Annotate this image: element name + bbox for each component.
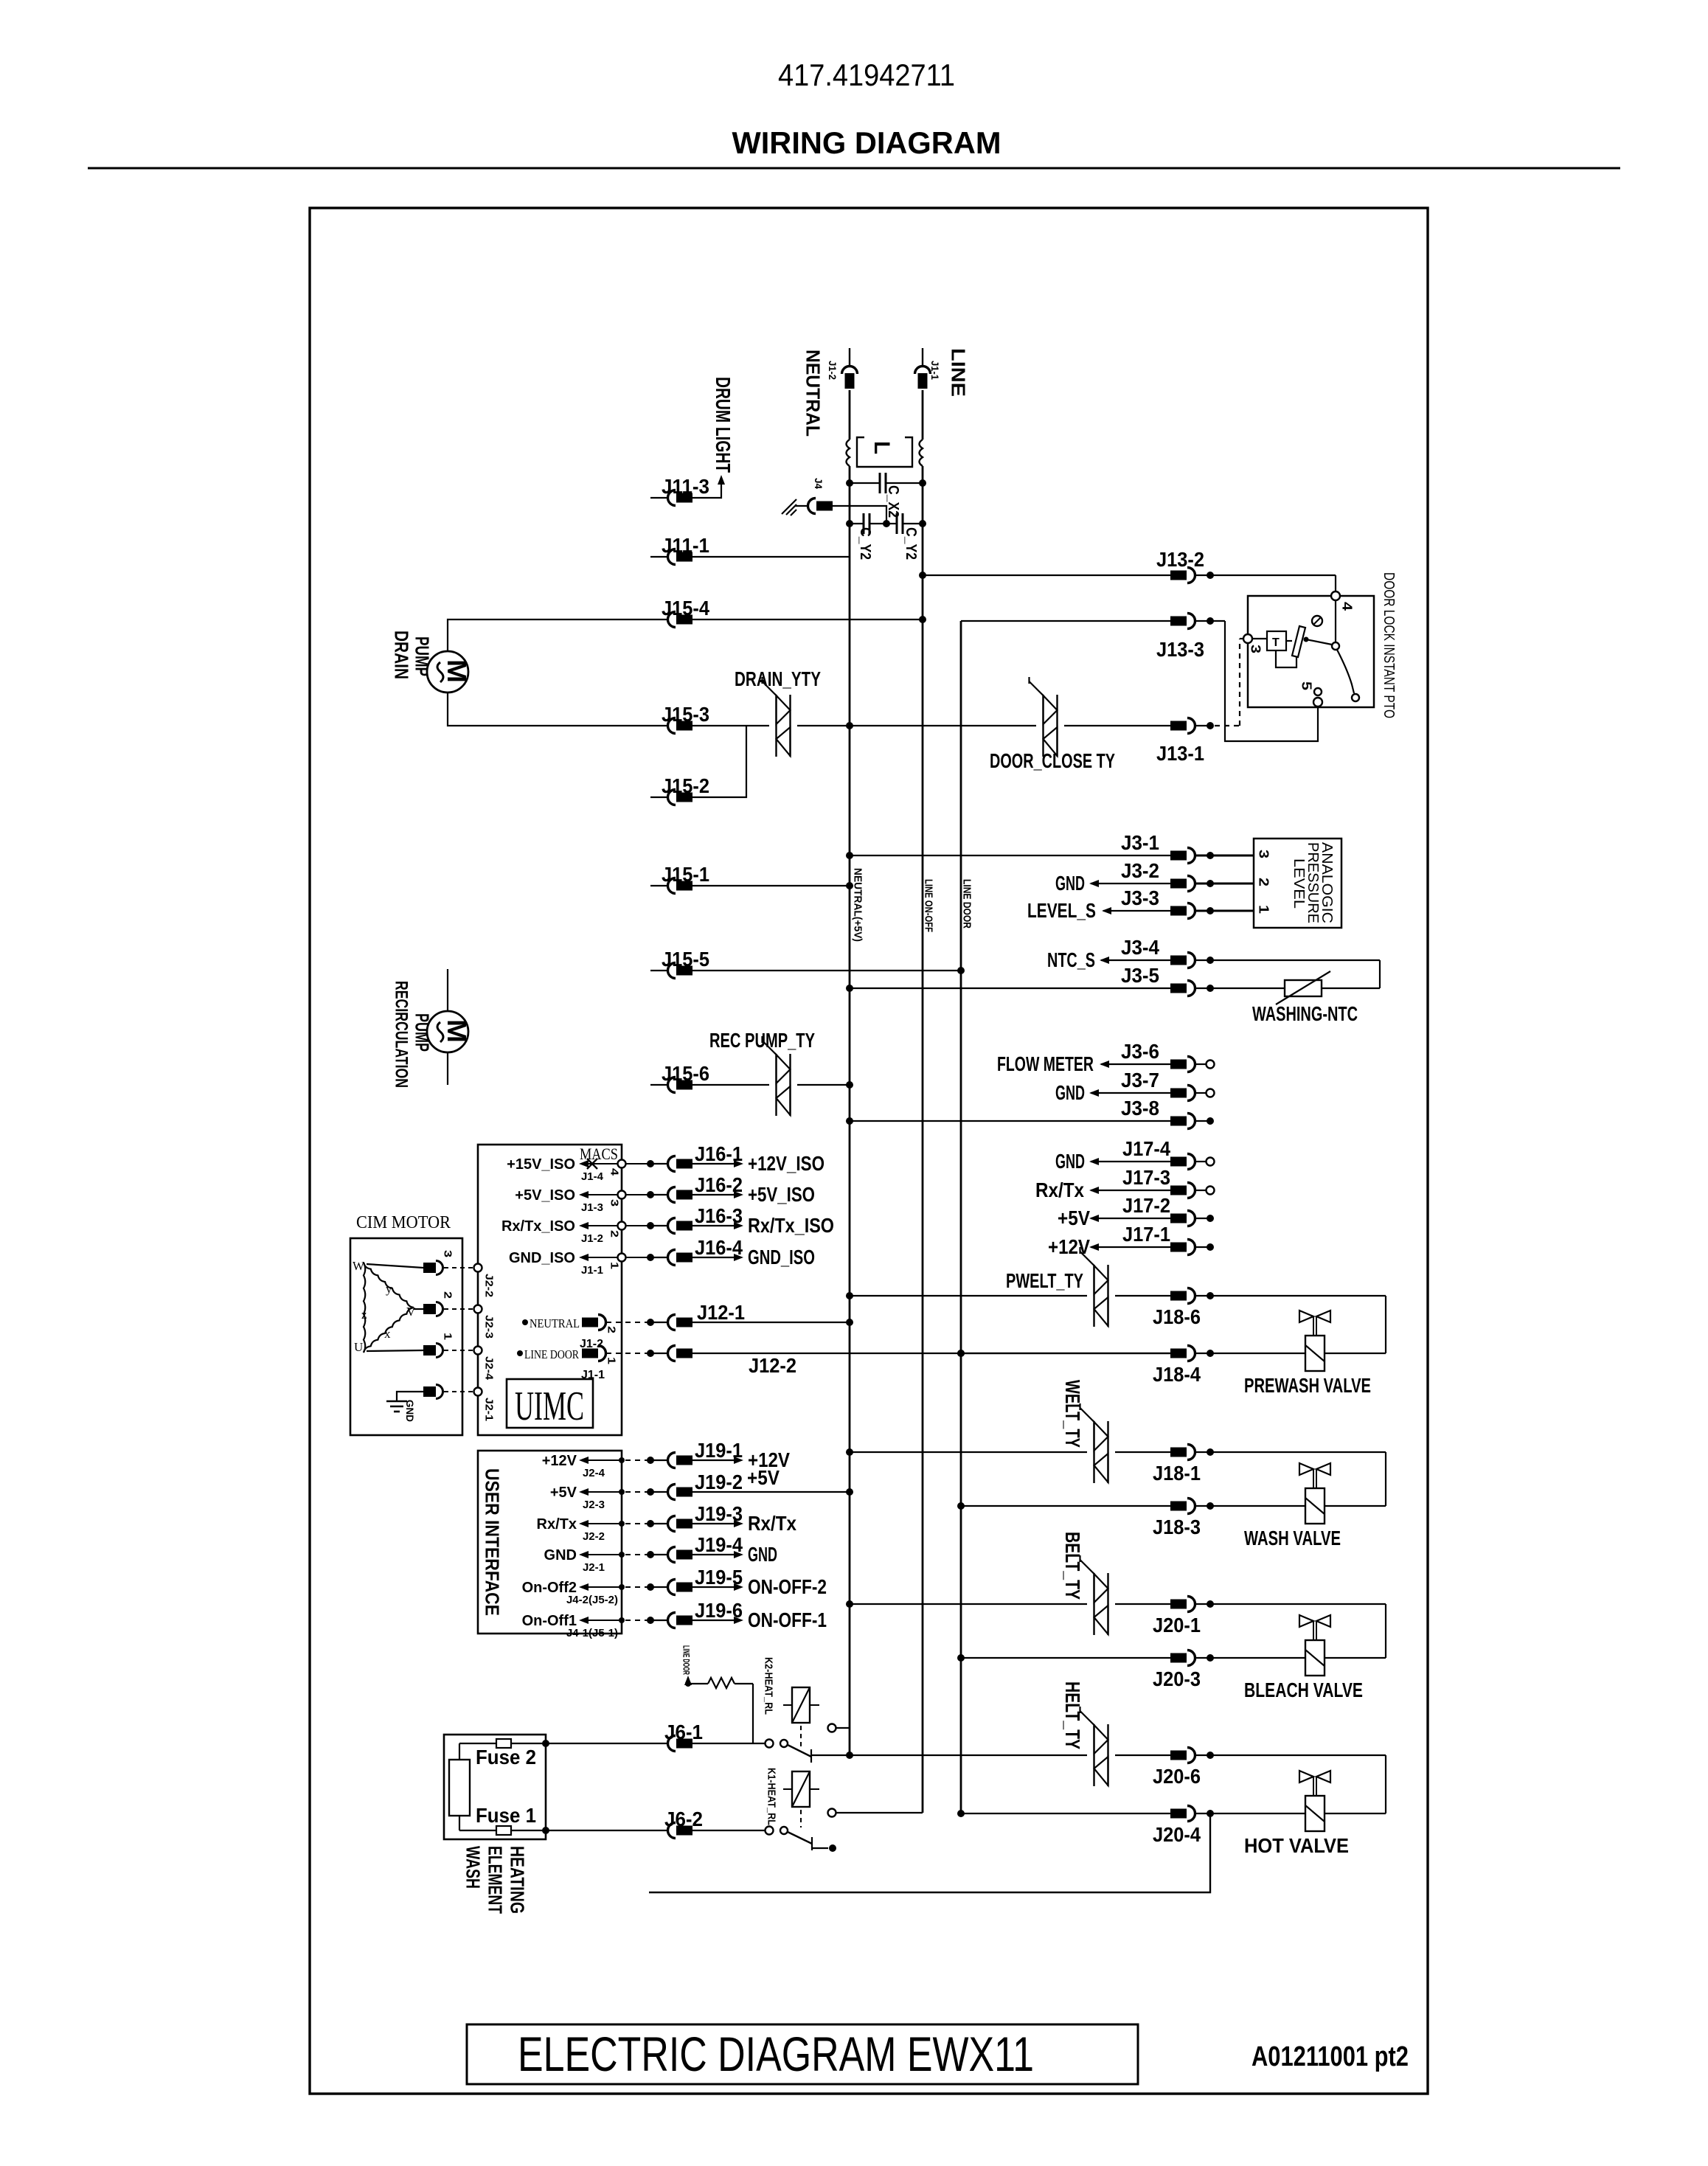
wire J20-3 row xyxy=(957,1654,1171,1662)
svg-text:3: 3 xyxy=(1257,850,1271,858)
wire J20-1 loop top xyxy=(1195,1600,1386,1658)
svg-text:J20-1: J20-1 xyxy=(1153,1614,1201,1636)
svg-text:2: 2 xyxy=(605,1326,618,1333)
svg-text:C_X2: C_X2 xyxy=(885,485,901,518)
svg-text:3: 3 xyxy=(608,1199,621,1207)
connector J19-3 xyxy=(668,1502,743,1532)
wire FLOW METER to J3-6 xyxy=(1101,1063,1171,1065)
dashed wire MACS to J12-2 xyxy=(606,1350,668,1357)
triac REC PUMP_TY xyxy=(775,1054,777,1116)
svg-text:J20-3: J20-3 xyxy=(1153,1667,1201,1690)
svg-text:3: 3 xyxy=(1249,645,1263,653)
fuse box junction J6-2 xyxy=(542,1827,549,1834)
svg-text:DRAIN: DRAIN xyxy=(391,631,413,679)
svg-text:J1-2: J1-2 xyxy=(580,1338,603,1350)
svg-text:ELECTRIC DIAGRAM EWX11: ELECTRIC DIAGRAM EWX11 xyxy=(518,2027,1034,2081)
valve HOT VALVE xyxy=(1244,1771,1349,1857)
connector J19-5 xyxy=(668,1566,743,1595)
analogic pressure level sensor box xyxy=(1254,839,1341,928)
label +5V J17-2 xyxy=(1058,1207,1099,1229)
signal arrow Rx/Tx_ISO xyxy=(692,1214,834,1237)
wire UI to J19-5 xyxy=(625,1583,668,1591)
svg-text:2: 2 xyxy=(1257,878,1271,886)
svg-text:C_Y2: C_Y2 xyxy=(857,527,873,560)
diagram border frame xyxy=(310,208,1428,2094)
CIM ground pin to MACS J2-1 xyxy=(397,1385,496,1422)
ground symbol CIM xyxy=(386,1400,416,1422)
svg-text:Rx/Tx_ISO: Rx/Tx_ISO xyxy=(501,1218,575,1235)
svg-text:J1-1: J1-1 xyxy=(581,1264,603,1277)
connector J19-4 xyxy=(668,1533,743,1563)
CIM pin 1 to MACS J2-4 xyxy=(367,1333,496,1381)
svg-text:J3-6: J3-6 xyxy=(1121,1040,1159,1063)
connector J20-6 xyxy=(1153,1748,1201,1788)
connector J3-1 xyxy=(1121,831,1195,864)
svg-text:J3-3: J3-3 xyxy=(1121,886,1159,909)
connector J16-4 xyxy=(668,1236,743,1266)
svg-text:WASHING-NTC: WASHING-NTC xyxy=(1252,1002,1358,1025)
wire drain pump to J15-4 xyxy=(448,619,668,652)
CIM pin 3 to MACS J2-2 xyxy=(367,1250,496,1297)
svg-text:LINE: LINE xyxy=(948,348,970,397)
svg-text:DOOR LOCK INSTANT PTO: DOOR LOCK INSTANT PTO xyxy=(1381,572,1397,718)
terminal J17-3 xyxy=(1195,1187,1215,1195)
svg-text:J1-2: J1-2 xyxy=(581,1232,603,1245)
connector J3-2 xyxy=(1121,859,1195,892)
svg-text:+12V: +12V xyxy=(542,1453,577,1469)
signal arrow +12V xyxy=(692,1448,790,1471)
wire K2 common to J20-6 row xyxy=(811,1754,850,1756)
label Rx/Tx J17-3 xyxy=(1035,1179,1099,1201)
svg-text:LEVEL_S: LEVEL_S xyxy=(1027,899,1096,922)
triac BELT_TY xyxy=(1093,1573,1094,1635)
connector J17-2 xyxy=(1122,1194,1195,1226)
svg-text:J2-4: J2-4 xyxy=(583,1467,605,1479)
svg-text:J18-1: J18-1 xyxy=(1153,1462,1201,1485)
svg-text:RECIRCULATION: RECIRCULATION xyxy=(391,981,411,1088)
svg-text:HEATING: HEATING xyxy=(507,1846,529,1914)
wire J15-1 to neutral bus xyxy=(692,882,853,889)
dashed wire MACS to J12-1 xyxy=(606,1319,668,1326)
connector J20-4 xyxy=(1153,1806,1201,1847)
heating element fuse box xyxy=(444,1735,546,1839)
connector J19-1 xyxy=(668,1439,743,1468)
svg-text:J20-4: J20-4 xyxy=(1153,1823,1201,1846)
svg-text:DRAIN_YTY: DRAIN_YTY xyxy=(735,667,821,690)
connector J4 xyxy=(795,499,833,514)
svg-text:J18-6: J18-6 xyxy=(1153,1305,1201,1328)
svg-text:Rx/Tx: Rx/Tx xyxy=(537,1516,577,1532)
connector J13-3 xyxy=(1156,614,1204,662)
connector J19-6 xyxy=(668,1599,743,1628)
label GND J3-7 xyxy=(1055,1081,1099,1104)
wire UI to J19-1 xyxy=(625,1457,668,1464)
svg-text:J2-2: J2-2 xyxy=(583,1530,605,1543)
label +12V J17-1 xyxy=(1048,1235,1099,1258)
svg-text:J17-3: J17-3 xyxy=(1122,1166,1170,1189)
triac PWELT_TY xyxy=(1093,1265,1094,1327)
module USER INTERFACE box xyxy=(478,1451,622,1634)
svg-text:J13-2: J13-2 xyxy=(1156,548,1204,571)
wire J13-3 to door lock pin 5 xyxy=(1195,617,1318,741)
signal arrow LINE DOOR with resistor xyxy=(681,1645,753,1743)
svg-text:J1-1: J1-1 xyxy=(929,361,941,380)
svg-text:NEUTRAL: NEUTRAL xyxy=(530,1316,580,1330)
wire J15-6 to triac xyxy=(692,1084,769,1086)
svg-text:C_Y2: C_Y2 xyxy=(903,527,919,560)
wire J11-1 to neutral bus xyxy=(692,556,850,558)
connector J15-6 xyxy=(650,1062,709,1093)
svg-text:Fuse 1: Fuse 1 xyxy=(476,1804,536,1827)
svg-text:M: M xyxy=(442,1019,472,1043)
wire drain pump to J15-3 xyxy=(448,692,668,726)
terminal J3-8 xyxy=(1195,1117,1214,1125)
svg-text:J19-2: J19-2 xyxy=(695,1471,743,1493)
connector J3-8 xyxy=(1121,1097,1195,1129)
terminal J17-4 xyxy=(1195,1158,1215,1166)
svg-text:J2-1: J2-1 xyxy=(483,1398,496,1421)
connector J18-3 xyxy=(1153,1499,1201,1539)
svg-text:PWELT_TY: PWELT_TY xyxy=(1006,1269,1083,1292)
MACS pin J1-4 +15V_ISO xyxy=(507,1156,625,1183)
svg-text:Fuse 2: Fuse 2 xyxy=(476,1746,536,1768)
triac WELT_TY xyxy=(1093,1421,1094,1483)
svg-text:HOT VALVE: HOT VALVE xyxy=(1244,1834,1349,1857)
connector J20-1 xyxy=(1153,1597,1201,1637)
svg-text:y: y xyxy=(386,1282,392,1296)
junction dot drain row neutral bus xyxy=(846,722,853,729)
svg-text:A01211001 pt2: A01211001 pt2 xyxy=(1252,2041,1409,2072)
wire J3-5 row from neutral bus xyxy=(850,987,1171,989)
wire MACS to J16-3 xyxy=(625,1222,668,1229)
connector J11-1 xyxy=(650,534,709,565)
svg-text:2: 2 xyxy=(442,1291,454,1299)
label ANALOGIC PRESSURE LEVEL xyxy=(1291,842,1335,923)
svg-text:J4-1(J5-1): J4-1(J5-1) xyxy=(566,1627,618,1639)
door lock box xyxy=(1248,596,1374,707)
label HEATING ELEMENT WASH xyxy=(462,1846,529,1914)
svg-text:1: 1 xyxy=(1257,905,1271,914)
svg-text:J18-4: J18-4 xyxy=(1153,1363,1201,1386)
svg-text:ELEMENT: ELEMENT xyxy=(485,1846,507,1914)
wire heater return bottom xyxy=(649,1816,1210,1892)
svg-text:J4-2(J5-2): J4-2(J5-2) xyxy=(566,1594,618,1606)
connector J11-3 xyxy=(650,475,709,506)
svg-text:ANALOGIC: ANALOGIC xyxy=(1319,842,1335,923)
svg-text:PRESSURE: PRESSURE xyxy=(1305,842,1321,923)
svg-text:J18-3: J18-3 xyxy=(1153,1516,1201,1538)
capacitor C_Y2 right xyxy=(886,513,923,560)
connector J1-2 NEUTRAL xyxy=(842,348,858,389)
wire J20-3 loop bottom xyxy=(1195,1654,1386,1662)
label RECIRCULATION PUMP xyxy=(391,981,433,1088)
wire J18-1 loop top xyxy=(1195,1448,1386,1506)
MACS internal connector J1-2 NEUTRAL xyxy=(522,1315,618,1351)
signal arrow Rx/Tx xyxy=(692,1512,796,1535)
svg-text:Rx/Tx: Rx/Tx xyxy=(748,1512,796,1535)
svg-text:J3-5: J3-5 xyxy=(1121,964,1159,987)
svg-text:NEUTRAL: NEUTRAL xyxy=(802,350,825,437)
connector J13-2 xyxy=(1156,548,1204,583)
door lock switch xyxy=(1304,600,1360,701)
signal arrow +12V_ISO xyxy=(692,1152,825,1175)
wire triac to J18-1 xyxy=(1115,1451,1171,1453)
wire MACS to J16-1 xyxy=(625,1160,668,1167)
wire LINE DOOR bus main xyxy=(960,621,962,1813)
wire J12-1 to neutral bus xyxy=(692,1319,853,1326)
svg-text:1: 1 xyxy=(608,1262,621,1269)
connector J15-5 xyxy=(650,948,709,979)
svg-text:Rx/Tx: Rx/Tx xyxy=(1035,1179,1084,1201)
svg-text:GND: GND xyxy=(748,1543,777,1566)
module CIM MOTOR box xyxy=(350,1238,462,1435)
wire J20-6 row xyxy=(846,1752,1087,1759)
svg-text:M: M xyxy=(442,659,472,683)
motor RECIRCULATION PUMP xyxy=(427,969,472,1085)
wire MACS to J16-4 xyxy=(625,1254,668,1261)
svg-text:J2-2: J2-2 xyxy=(483,1274,496,1297)
wire J20-1 row xyxy=(846,1600,1087,1608)
svg-text:LINE DOOR: LINE DOOR xyxy=(961,879,973,928)
svg-text:WASH: WASH xyxy=(462,1846,485,1889)
ground symbol at J4 xyxy=(782,499,796,516)
wire LEVEL_S to J3-3 xyxy=(1103,910,1171,912)
svg-text:K2-HEAT_RL: K2-HEAT_RL xyxy=(763,1657,775,1715)
USER INTERFACE pin J2-1 GND xyxy=(544,1547,625,1574)
svg-text:UIMC: UIMC xyxy=(515,1384,584,1429)
junction dot J13-2 line bus xyxy=(919,572,926,579)
motor winding delta xyxy=(353,1259,416,1354)
USER INTERFACE pin J2-3 +5V xyxy=(550,1485,625,1511)
connector J15-3 xyxy=(662,703,709,734)
svg-text:PREWASH VALVE: PREWASH VALVE xyxy=(1244,1374,1371,1397)
connector J16-2 xyxy=(668,1173,743,1203)
wire fuse to J6-2 xyxy=(546,1830,668,1831)
svg-text:J17-4: J17-4 xyxy=(1122,1137,1170,1160)
wire J18-4 loop bottom xyxy=(1195,1350,1386,1357)
wire J19-2 +5V to neutral bus xyxy=(692,1466,853,1496)
contact K2 upper xyxy=(828,1724,850,1732)
wire J13-2 to door lock pin 4 xyxy=(1195,572,1336,591)
MACS pin J1-2 Rx/Tx_ISO xyxy=(501,1218,626,1245)
svg-text:4: 4 xyxy=(608,1168,621,1176)
svg-text:W: W xyxy=(353,1259,365,1273)
connector J17-1 xyxy=(1122,1223,1195,1255)
svg-text:BLEACH VALVE: BLEACH VALVE xyxy=(1244,1679,1363,1701)
svg-text:+5V: +5V xyxy=(1058,1207,1090,1229)
USER INTERFACE pin J4-1(J5-1) On-Off1 xyxy=(522,1613,625,1639)
svg-text:ON-OFF-1: ON-OFF-1 xyxy=(748,1608,827,1631)
svg-text:J2-4: J2-4 xyxy=(483,1356,496,1381)
svg-text:J1-2: J1-2 xyxy=(827,361,839,380)
svg-text:WASH VALVE: WASH VALVE xyxy=(1244,1527,1341,1549)
relay coil K1-HEAT_RL xyxy=(766,1768,819,1827)
wire LINE bus upper xyxy=(922,390,924,440)
svg-text:4: 4 xyxy=(1340,602,1355,611)
wire triac to J13-1 xyxy=(1064,725,1171,726)
wire J11-3 drum light arrow xyxy=(692,475,725,498)
wire J4 to C_Y2 midpoint xyxy=(832,506,886,524)
module MACS box xyxy=(478,1145,622,1435)
wire NTC_S to J3-4 xyxy=(1101,959,1171,961)
signal arrow GND xyxy=(692,1543,777,1566)
connector J12-2 xyxy=(668,1346,797,1378)
svg-text:+5V: +5V xyxy=(550,1485,577,1501)
USER INTERFACE pin J4-2(J5-2) On-Off2 xyxy=(522,1580,625,1606)
wire J3-2 to sensor pin 2 xyxy=(1195,880,1254,887)
connector J3-6 xyxy=(1121,1040,1195,1072)
wire J15-2 up to J15-3 row xyxy=(692,726,746,797)
wire J3-3 to sensor pin 1 xyxy=(1195,907,1254,914)
wire J3-1 to sensor pin 3 xyxy=(1195,852,1254,859)
connector J16-3 xyxy=(668,1204,743,1234)
svg-text:2: 2 xyxy=(608,1230,621,1238)
wire fuse to J6-1 xyxy=(546,1743,668,1744)
MACS internal connector J1-1 LINE DOOR xyxy=(517,1346,618,1382)
connector J6-1 xyxy=(664,1721,703,1752)
svg-text:3: 3 xyxy=(442,1250,454,1257)
wire MACS to J16-2 xyxy=(625,1191,668,1198)
svg-text:z: z xyxy=(361,1308,367,1322)
junction dot J15-4 line bus xyxy=(919,616,926,623)
svg-text:LEVEL: LEVEL xyxy=(1291,858,1307,909)
label GND J17-4 xyxy=(1055,1150,1099,1173)
svg-text:T: T xyxy=(1272,636,1280,649)
wire J13-3 row from line-door bus xyxy=(961,620,1171,622)
svg-text:+12V_ISO: +12V_ISO xyxy=(748,1152,825,1175)
signal arrow ON-OFF-2 xyxy=(692,1575,827,1598)
svg-text:1: 1 xyxy=(605,1357,618,1364)
connector J19-2 xyxy=(668,1471,743,1500)
connector J18-4 xyxy=(1153,1346,1201,1386)
wire J18-1 row xyxy=(846,1448,1087,1456)
wire J13-1 dot xyxy=(1195,725,1212,726)
svg-text:WELT_TY: WELT_TY xyxy=(1061,1380,1084,1448)
svg-text:U: U xyxy=(354,1340,363,1354)
label DRAIN PUMP xyxy=(391,631,434,679)
junction dots C_X2 row xyxy=(846,479,853,487)
signal arrow GND_ISO xyxy=(692,1246,815,1268)
svg-text:Rx/Tx_ISO: Rx/Tx_ISO xyxy=(748,1214,834,1237)
dashed wire J13-1 to door lock pin 3 xyxy=(1215,639,1243,726)
wire +5V to J17-2 xyxy=(1091,1218,1171,1219)
svg-text:J1-4: J1-4 xyxy=(581,1170,604,1183)
relay coil K2-HEAT_RL xyxy=(763,1657,819,1748)
svg-text:J4: J4 xyxy=(813,478,825,489)
door lock pin 4 xyxy=(1331,591,1340,600)
svg-text:J3-1: J3-1 xyxy=(1121,831,1159,854)
wire J18-4 row xyxy=(957,1350,1171,1357)
motor DRAIN PUMP xyxy=(427,651,472,693)
capacitor C_Y2 left xyxy=(850,513,886,560)
inductor L (common-mode choke) xyxy=(847,437,923,467)
wire +12V to J17-1 xyxy=(1091,1246,1171,1248)
capacitor C_X2 xyxy=(850,473,923,518)
USER INTERFACE pin J2-4 +12V xyxy=(542,1453,625,1479)
wire GND to J3-7 xyxy=(1091,1092,1171,1094)
triac HELT_TY xyxy=(1093,1724,1094,1786)
svg-text:MACS: MACS xyxy=(580,1145,618,1163)
terminal J17-2 xyxy=(1195,1215,1214,1222)
connector J15-2 xyxy=(650,774,709,805)
wire J13-2 row xyxy=(923,575,1171,576)
wire J18-3 loop bottom xyxy=(1195,1502,1386,1510)
connector J1-1 LINE xyxy=(915,348,931,389)
label FLOW METER J3-6 xyxy=(997,1052,1109,1075)
wire J20-6 loop top xyxy=(1195,1752,1386,1813)
wire J12-2 to J18-4 row xyxy=(692,1350,1171,1357)
svg-text:5: 5 xyxy=(1299,681,1314,690)
svg-text:417.41942711: 417.41942711 xyxy=(778,58,955,92)
sensor pin numbers xyxy=(1257,850,1271,914)
triac DRAIN_YTY xyxy=(775,695,777,757)
svg-text:LINE DOOR: LINE DOOR xyxy=(681,1645,692,1675)
wire GND to J17-4 xyxy=(1091,1161,1171,1162)
valve WASH VALVE xyxy=(1244,1463,1341,1549)
svg-text:GND: GND xyxy=(1055,872,1085,895)
svg-text:J2-3: J2-3 xyxy=(583,1499,605,1511)
svg-text:LINE DOOR: LINE DOOR xyxy=(524,1347,580,1361)
wire UI to J19-3 xyxy=(625,1520,668,1527)
svg-text:GND_ISO: GND_ISO xyxy=(748,1246,815,1268)
wire LINE ON-OFF bus main xyxy=(922,466,924,1813)
label GND J3-2 xyxy=(1055,872,1099,895)
svg-text:J2-3: J2-3 xyxy=(483,1315,496,1339)
svg-text:J13-3: J13-3 xyxy=(1156,638,1204,661)
module UIMC box xyxy=(507,1379,593,1429)
svg-text:+5V: +5V xyxy=(747,1466,780,1489)
signal arrow ON-OFF-1 xyxy=(692,1608,827,1631)
svg-text:J2-1: J2-1 xyxy=(583,1561,605,1574)
door lock solenoid xyxy=(1252,626,1305,667)
connector J20-3 xyxy=(1153,1650,1201,1691)
thermistor WASHING-NTC xyxy=(1195,971,1380,1025)
terminal J3-7 xyxy=(1195,1089,1215,1097)
wire J15-3 to triac xyxy=(692,725,769,726)
wire UI to J19-4 xyxy=(625,1551,668,1558)
svg-text:LINE ON-OFF: LINE ON-OFF xyxy=(923,879,935,932)
svg-text:GND: GND xyxy=(404,1400,416,1422)
wire triac to J18-6 xyxy=(1115,1295,1171,1297)
svg-text:CIM MOTOR: CIM MOTOR xyxy=(356,1213,451,1232)
svg-text:J20-6: J20-6 xyxy=(1153,1765,1201,1788)
connector J16-1 xyxy=(668,1142,743,1172)
svg-text:J17-2: J17-2 xyxy=(1122,1194,1170,1217)
svg-text:GND: GND xyxy=(1055,1081,1085,1104)
wire J3-4 loop xyxy=(1195,957,1380,988)
connector J3-5 xyxy=(1121,964,1195,996)
svg-text:WIRING DIAGRAM: WIRING DIAGRAM xyxy=(732,125,1001,160)
wire triac to neutral bus xyxy=(797,725,850,726)
wire J15-5 to line-door bus xyxy=(692,967,965,974)
svg-text:J12-1: J12-1 xyxy=(697,1301,745,1324)
wire J18-6 row xyxy=(846,1292,1087,1299)
connector J17-3 xyxy=(1122,1166,1195,1198)
wire J20-4 loop bottom xyxy=(1195,1810,1386,1817)
triac DOOR_CLOSE TY xyxy=(1042,695,1044,757)
wire J18-3 row xyxy=(957,1502,1171,1510)
wire GND to J3-2 xyxy=(1091,883,1171,884)
CIM pin 2 to MACS J2-3 xyxy=(414,1291,496,1339)
svg-text:J12-2: J12-2 xyxy=(749,1354,796,1377)
svg-text:DOOR_CLOSE TY: DOOR_CLOSE TY xyxy=(990,749,1115,772)
contact K1 upper to line on-off bus xyxy=(828,1809,923,1817)
wire J15-4 to line bus xyxy=(692,619,923,620)
valve BLEACH VALVE xyxy=(1244,1615,1363,1701)
wire triac to J20-1 xyxy=(1115,1603,1171,1605)
connector J3-4 xyxy=(1121,936,1195,968)
svg-text:J3-8: J3-8 xyxy=(1121,1097,1159,1120)
